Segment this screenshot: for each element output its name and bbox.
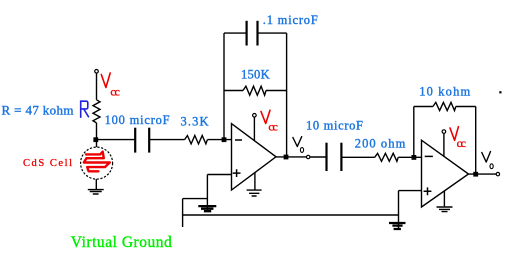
svg-text:150K: 150K — [241, 67, 270, 81]
svg-text:10 kohm: 10 kohm — [419, 84, 470, 98]
svg-text:10 microF: 10 microF — [306, 119, 363, 133]
svg-text:.1 microF: .1 microF — [263, 13, 318, 27]
svg-text:cc: cc — [457, 136, 466, 150]
svg-text:cc: cc — [110, 85, 119, 99]
svg-text:cc: cc — [268, 120, 277, 134]
svg-text:Virtual Ground: Virtual Ground — [71, 234, 172, 251]
svg-text:3.3K: 3.3K — [181, 114, 209, 128]
svg-text:100 microF: 100 microF — [105, 113, 170, 127]
svg-text:R = 47 kohm: R = 47 kohm — [2, 103, 74, 118]
svg-text:200 ohm: 200 ohm — [355, 137, 406, 151]
